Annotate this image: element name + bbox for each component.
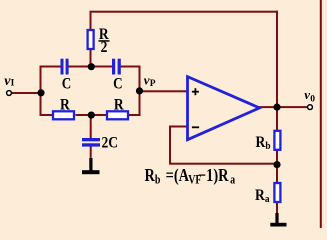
svg-text:C: C <box>62 75 71 92</box>
svg-text:R: R <box>60 96 70 113</box>
svg-text:0: 0 <box>310 94 315 104</box>
svg-text:2C: 2C <box>102 135 119 152</box>
svg-text:2: 2 <box>101 39 108 56</box>
svg-text:C: C <box>113 75 122 92</box>
svg-text:P: P <box>150 79 156 89</box>
svg-text:I: I <box>11 79 15 89</box>
svg-text:R: R <box>114 96 124 113</box>
